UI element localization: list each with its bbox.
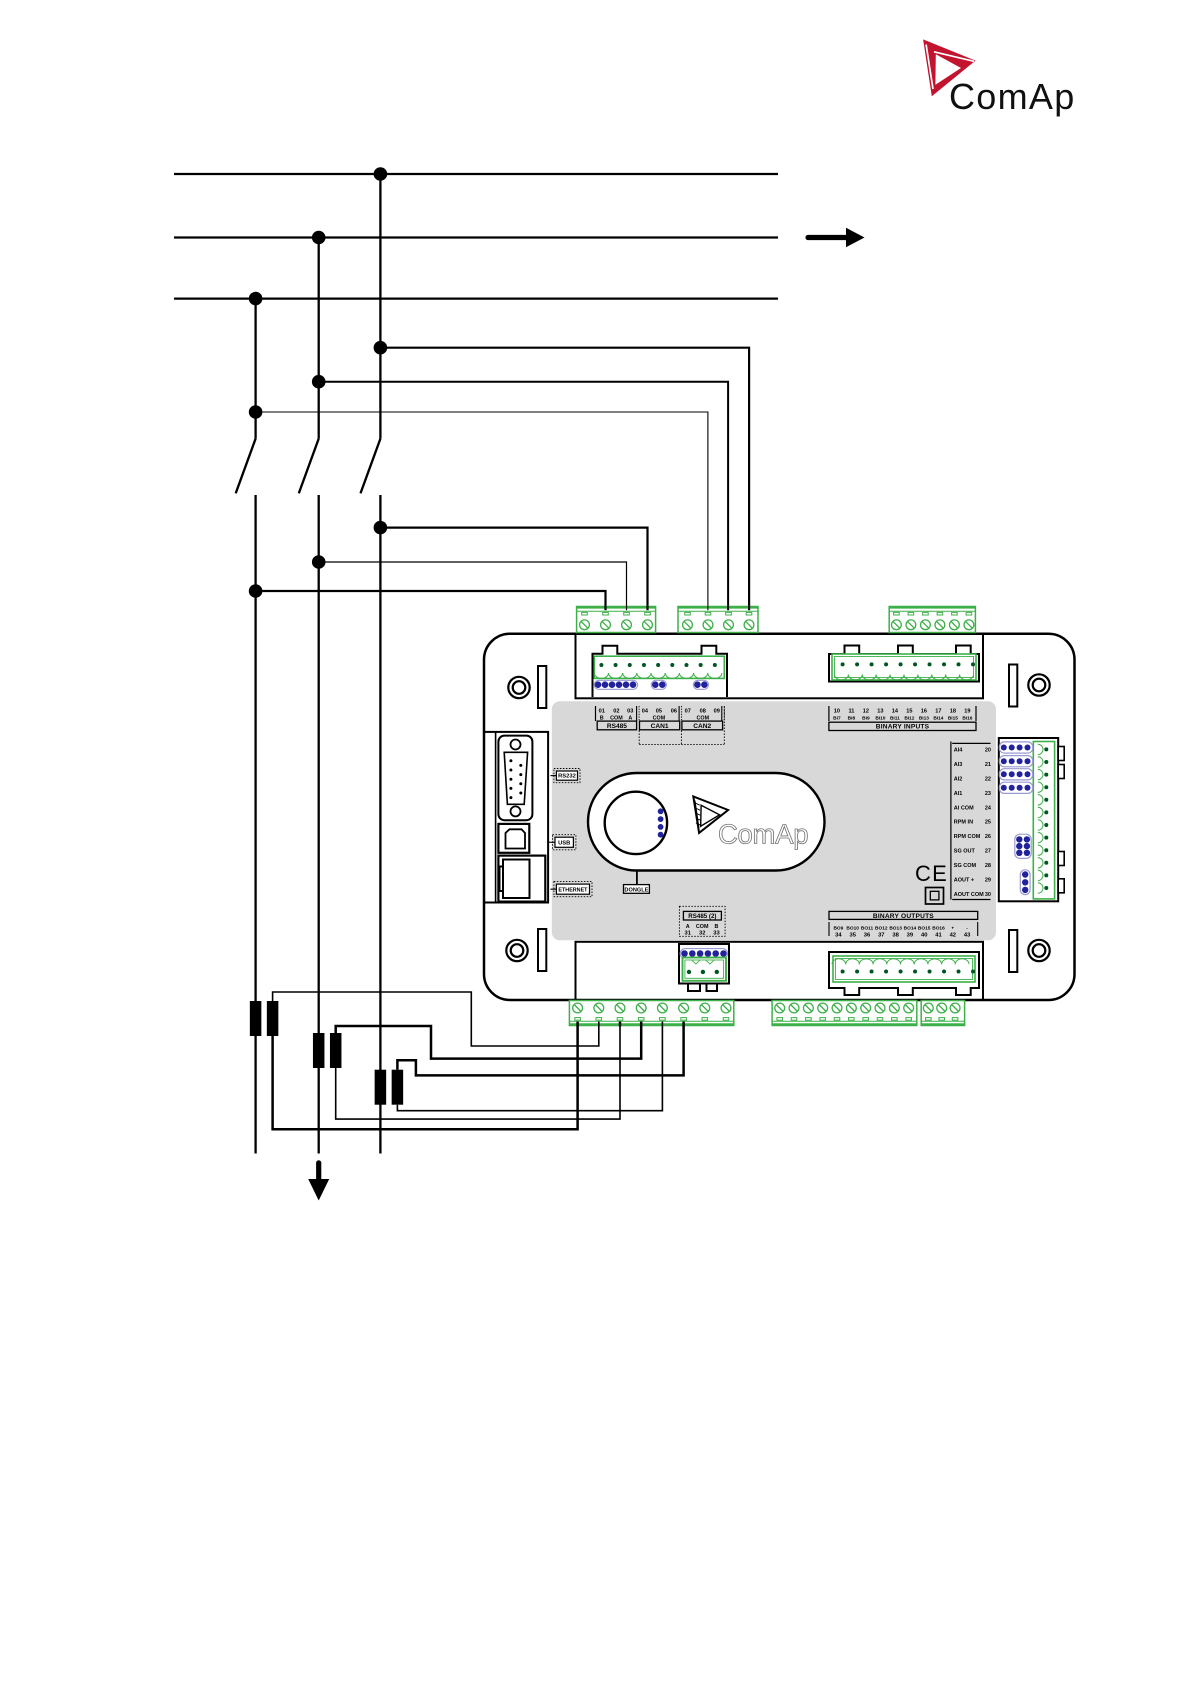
svg-text:SG COM: SG COM [954,863,977,869]
svg-text:RS232: RS232 [558,773,576,779]
svg-text:31: 31 [684,931,691,937]
svg-text:ComAp: ComAp [949,76,1076,117]
svg-text:21: 21 [985,762,991,768]
svg-text:42: 42 [950,933,956,939]
svg-text:BI16: BI16 [962,716,972,722]
svg-text:AI1: AI1 [954,791,963,797]
svg-text:BI15: BI15 [948,716,958,722]
svg-text:36: 36 [864,933,871,939]
svg-text:AI COM: AI COM [954,805,974,811]
svg-text:BI12: BI12 [904,716,914,722]
svg-text:BO12: BO12 [875,926,888,932]
svg-text:BO13: BO13 [889,926,902,932]
svg-text:CAN2: CAN2 [693,723,711,730]
svg-text:RS485: RS485 [607,723,627,730]
svg-text:25: 25 [985,820,991,826]
svg-text:33: 33 [713,931,720,937]
svg-text:23: 23 [985,791,991,797]
svg-text:15: 15 [906,709,912,715]
svg-text:USB: USB [558,841,570,847]
svg-text:BO15: BO15 [918,926,931,932]
svg-text:38: 38 [892,933,899,939]
svg-text:07: 07 [685,709,691,715]
svg-text:16: 16 [921,709,927,715]
svg-text:BO16: BO16 [932,926,945,932]
svg-text:+: + [951,927,954,932]
svg-text:CE: CE [915,861,948,886]
svg-text:11: 11 [848,709,854,715]
svg-text:19: 19 [964,709,970,715]
svg-text:03: 03 [627,709,633,715]
svg-text:BI8: BI8 [848,716,856,722]
svg-text:27: 27 [985,849,991,855]
svg-text:04: 04 [642,709,649,715]
svg-text:41: 41 [935,933,942,939]
svg-text:BO14: BO14 [904,926,917,932]
svg-text:A: A [686,924,690,930]
svg-text:BI9: BI9 [862,716,870,722]
svg-text:18: 18 [950,709,956,715]
svg-text:06: 06 [671,709,677,715]
svg-text:RPM COM: RPM COM [954,834,981,840]
svg-text:24: 24 [985,805,992,811]
svg-text:AOUT COM: AOUT COM [954,892,984,898]
svg-text:12: 12 [863,709,869,715]
svg-text:01: 01 [599,709,605,715]
svg-text:SG OUT: SG OUT [954,849,976,855]
svg-text:37: 37 [878,933,884,939]
svg-text:29: 29 [985,877,991,883]
svg-text:DONGLE: DONGLE [624,888,648,894]
svg-text:40: 40 [921,933,927,939]
svg-text:BI14: BI14 [933,716,943,722]
svg-text:BO11: BO11 [861,926,874,932]
svg-text:BO10: BO10 [846,926,859,932]
svg-text:BI11: BI11 [890,716,900,722]
svg-text:B: B [715,924,719,930]
svg-text:22: 22 [985,776,991,782]
svg-text:20: 20 [985,748,991,754]
svg-text:BO9: BO9 [833,926,843,932]
svg-text:14: 14 [892,709,899,715]
svg-text:26: 26 [985,834,991,840]
svg-text:AI4: AI4 [954,748,964,754]
svg-text:34: 34 [835,933,842,939]
svg-text:ETHERNET: ETHERNET [558,887,588,893]
svg-text:02: 02 [613,709,619,715]
svg-text:09: 09 [714,709,720,715]
svg-text:BINARY INPUTS: BINARY INPUTS [876,724,930,731]
svg-text:COM: COM [696,924,709,930]
svg-text:17: 17 [935,709,941,715]
svg-text:35: 35 [849,933,856,939]
svg-text:RS485 (2): RS485 (2) [688,913,716,920]
svg-text:AI3: AI3 [954,762,963,768]
svg-text:CAN1: CAN1 [651,723,669,730]
svg-text:BINARY OUTPUTS: BINARY OUTPUTS [873,913,934,920]
svg-text:32: 32 [699,931,705,937]
svg-text:05: 05 [656,709,662,715]
svg-text:13: 13 [877,709,883,715]
svg-text:AI2: AI2 [954,776,963,782]
svg-text:ComAp: ComAp [718,819,808,850]
svg-text:RPM IN: RPM IN [954,820,973,826]
svg-text:BI10: BI10 [875,716,885,722]
svg-text:AOUT +: AOUT + [954,877,974,883]
svg-text:BI7: BI7 [833,716,841,722]
svg-text:10: 10 [834,709,840,715]
svg-text:BI13: BI13 [919,716,929,722]
svg-text:28: 28 [985,863,991,869]
svg-text:39: 39 [907,933,914,939]
svg-text:43: 43 [964,933,971,939]
svg-text:30: 30 [985,892,991,898]
svg-text:08: 08 [700,709,706,715]
